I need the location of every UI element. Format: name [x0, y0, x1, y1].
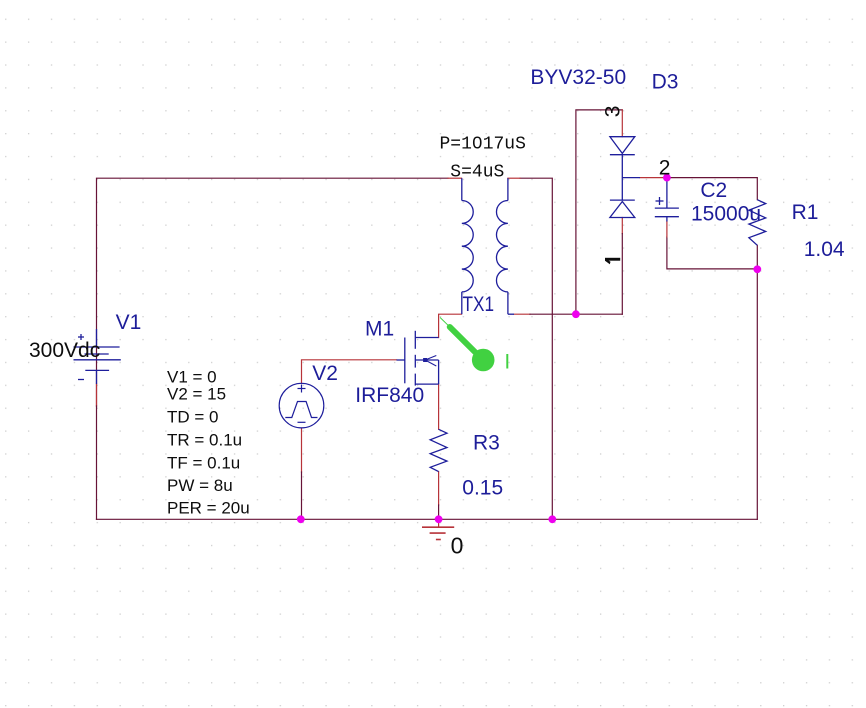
capacitor C2 — [655, 181, 679, 222]
junction node 2 (diode output / C2) — [663, 174, 671, 182]
svg-text:TD = 0: TD = 0 — [167, 408, 219, 427]
V2 params — [167, 368, 250, 518]
svg-text:P=1017uS: P=1017uS — [440, 135, 526, 155]
pin2 stub — [622, 177, 640, 179]
svg-text:V1: V1 — [116, 311, 142, 334]
wire diode top red stub — [621, 110, 623, 137]
svg-text:3: 3 — [602, 106, 625, 118]
svg-text:TF = 0.1u: TF = 0.1u — [167, 453, 240, 472]
wire V2 to gate red — [302, 360, 397, 384]
primary lead bottom — [461, 292, 463, 314]
svg-text:15000u: 15000u — [691, 202, 761, 225]
wire left vertical below V1 red part — [96, 384, 98, 406]
primary winding — [462, 201, 473, 292]
wire bottom bus — [97, 518, 758, 520]
wire R3 bottom red — [438, 472, 440, 505]
wire TX1 primary bottom to drain — [439, 314, 462, 337]
svg-text:BYV32-50: BYV32-50 — [530, 66, 626, 89]
svg-text:TR = 0.1u: TR = 0.1u — [167, 431, 242, 450]
svg-text:M1: M1 — [365, 317, 394, 340]
mosfet M1 — [397, 331, 439, 386]
wire secondary bottom maroon to diode — [530, 313, 622, 315]
svg-text:0.15: 0.15 — [462, 477, 503, 500]
secondary winding — [496, 201, 507, 292]
junction secondary bottom / diode branch — [572, 310, 580, 318]
svg-text:D3: D3 — [652, 71, 679, 94]
resistor R1 — [749, 200, 766, 246]
svg-text:PW = 8u: PW = 8u — [167, 476, 233, 495]
wire diode bottom maroon — [621, 234, 623, 315]
svg-text:V2 = 15: V2 = 15 — [167, 385, 226, 404]
wire left vertical lower maroon — [96, 406, 98, 519]
wire top bus left — [97, 178, 449, 406]
svg-text:300Vdc: 300Vdc — [29, 339, 100, 362]
wire top bus red stub to TX1 primary — [448, 177, 462, 179]
transformer TX1 — [462, 178, 514, 314]
svg-text:R1: R1 — [792, 201, 819, 224]
pulse source V2 — [279, 383, 324, 428]
wire pin2 red — [640, 177, 667, 179]
svg-text:0: 0 — [451, 532, 464, 558]
svg-text:PER = 20u: PER = 20u — [167, 499, 250, 518]
wire secondary top to down-bus — [520, 178, 552, 519]
svg-text:2: 2 — [659, 156, 671, 179]
wire diode bottom red stub — [621, 218, 623, 234]
svg-text:R3: R3 — [473, 432, 500, 455]
wire secondary bottom red stub — [514, 313, 530, 315]
svg-text:I: I — [504, 351, 510, 374]
wire C2 bottom horizontal — [667, 237, 757, 269]
battery V1 — [74, 329, 121, 384]
wire R3 bottom maroon — [438, 505, 440, 519]
mosfet arrow square — [423, 358, 427, 362]
svg-text:S=4uS: S=4uS — [450, 163, 504, 183]
zero dot cover — [476, 140, 479, 145]
resistor R3 — [430, 429, 447, 471]
ground 0 — [422, 527, 454, 539]
junction R3/ground at bus — [435, 515, 443, 523]
svg-text:TX1: TX1 — [463, 293, 495, 316]
wire source to R3 — [438, 384, 440, 429]
junction secondary return at bus — [548, 515, 556, 523]
diode D3 bottom (pin1 side) — [610, 199, 635, 201]
primary lead top — [461, 178, 463, 200]
current probe — [440, 318, 476, 354]
secondary lead top — [507, 178, 509, 200]
wire secondary top red stub — [508, 177, 520, 179]
wire V2 bottom maroon — [301, 472, 303, 519]
pin label 1 rotated (drawn, Arial-style no foot serif) — [605, 258, 620, 265]
diode D3 top (pin3 side) — [610, 137, 640, 218]
wire ground stub — [438, 519, 440, 527]
svg-text:C2: C2 — [700, 179, 727, 202]
wire right vertical — [756, 245, 758, 519]
svg-text:V2: V2 — [312, 362, 338, 385]
junction C2 bottom / R1 bottom — [753, 265, 761, 273]
secondary lead bottom — [507, 292, 509, 314]
wire diode left branch up — [576, 110, 622, 314]
wire R1 top to top-right bus — [667, 178, 757, 200]
wire V2 bottom red — [301, 428, 303, 472]
junction V2 at ground bus — [297, 515, 305, 523]
svg-text:IRF840: IRF840 — [355, 384, 424, 407]
svg-text:1.04: 1.04 — [804, 238, 845, 261]
wire C2 bottom red stub — [666, 222, 668, 238]
